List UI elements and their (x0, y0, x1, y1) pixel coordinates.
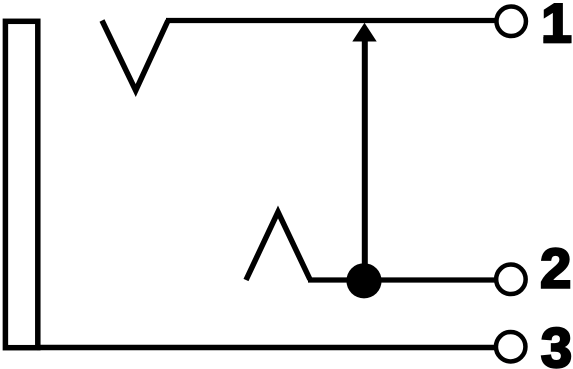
svg-text:3: 3 (541, 316, 572, 369)
actuation arrow shaft (362, 38, 368, 281)
svg-text:1: 1 (541, 0, 572, 54)
ring/tip spring contact (caret) (246, 212, 310, 280)
terminal 1 pin circle (496, 7, 526, 37)
label pin 1 (541, 0, 572, 54)
wire: switch contact to terminal 1 (166, 18, 497, 23)
wire: sleeve to terminal 3 (37, 345, 497, 351)
sleeve body J1 (5, 21, 37, 347)
junction dot (346, 263, 381, 298)
svg-text:2: 2 (540, 237, 571, 300)
actuation arrow head (352, 23, 376, 42)
tip switch contact (V spring) (102, 21, 168, 91)
wire: contact to terminal 2 (308, 277, 497, 282)
terminal 3 pin circle (496, 332, 526, 362)
terminal 2 pin circle (496, 265, 526, 295)
